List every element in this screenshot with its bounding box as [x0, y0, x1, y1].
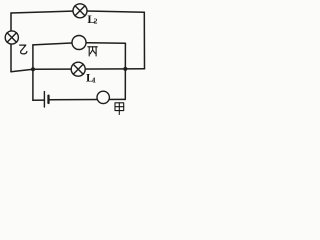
- wire 丙 row: [33, 43, 126, 45]
- wire top (battery + through L2 branch): [11, 11, 144, 13]
- label 丙 (drawn glyph): [88, 47, 98, 56]
- wire battery right to meter 甲 and corner: [48, 98, 125, 100]
- wire left outer vertical: [10, 13, 12, 72]
- svg-text:1: 1: [92, 75, 96, 84]
- lamp 乙: [5, 31, 18, 44]
- lamp L1: [71, 62, 85, 76]
- wire right outer vertical: [143, 12, 145, 69]
- wire inner-right vertical: [124, 43, 126, 99]
- meter 甲 circle: [97, 91, 109, 103]
- battery B1 short plate: [47, 96, 49, 103]
- wire inner-left vertical: [32, 45, 34, 100]
- wire L1 row: [33, 68, 145, 71]
- svg-text:2: 2: [94, 17, 98, 26]
- meter 丙 circle: [72, 36, 86, 50]
- wire bottom of lamp 乙 branch: [11, 69, 33, 72]
- battery B1 long plate: [43, 92, 45, 107]
- label 甲 (drawn glyph): [115, 103, 124, 115]
- wire battery left: [33, 99, 45, 101]
- lamp L2: [73, 4, 87, 18]
- node junction dot right: [123, 67, 127, 71]
- label 乙 (drawn glyph): [20, 45, 27, 54]
- node junction dot left: [31, 67, 35, 71]
